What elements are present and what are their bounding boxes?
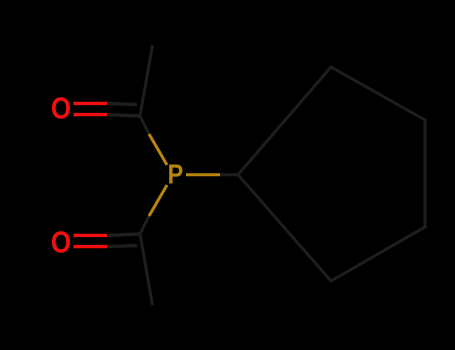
bond C1-CH3 (top methyl)	[140, 45, 153, 116]
bond P-ring dark half	[219, 173, 238, 176]
bond C1-P gold half	[149, 134, 167, 165]
svg-text:P: P	[168, 160, 184, 190]
bond C1=O1 carbon-side dark half (top carbonyl)	[106, 103, 140, 116]
svg-text:O: O	[51, 90, 71, 124]
bond C2=O2 red half (bottom carbonyl, oxygen side)	[74, 235, 108, 246]
ring C6 (cyclohexyl ring, dark carbon skeleton)	[238, 67, 425, 281]
bond P-ring gold half	[186, 173, 220, 176]
bond C2-CH3 (bottom methyl)	[140, 234, 153, 305]
svg-text:O: O	[51, 225, 71, 259]
bond C2-P gold half	[149, 185, 167, 216]
bond C2=O2 carbon-side dark half (bottom carbonyl)	[106, 234, 140, 247]
bond C2-P dark half	[140, 216, 149, 234]
bond C1=O1 red half (top carbonyl, oxygen side)	[74, 103, 108, 114]
bond C1-P dark half	[140, 116, 149, 134]
